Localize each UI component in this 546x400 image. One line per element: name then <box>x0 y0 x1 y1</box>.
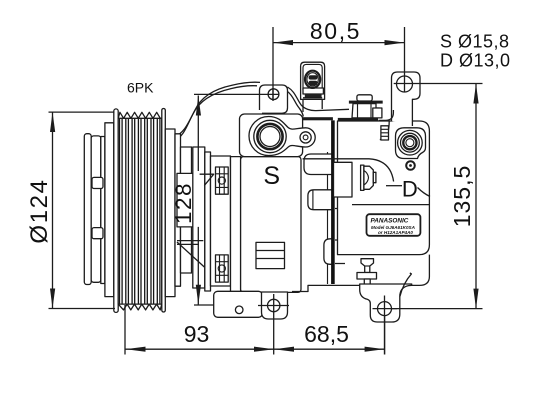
svg-text:D: D <box>402 176 418 201</box>
discharge boss blob <box>396 128 426 159</box>
svg-text:or H12A1AP4A0: or H12A1AP4A0 <box>378 230 413 235</box>
top-right mounting ear <box>392 72 421 126</box>
dimension 68,5 <box>274 315 385 355</box>
rear stud bolt bottom <box>357 259 377 286</box>
dimension 80,5 <box>273 18 405 99</box>
bottom-center mounting lug <box>262 292 288 319</box>
plate chamfer and coil details <box>200 174 214 185</box>
clutch coil housing step 2 <box>181 147 192 273</box>
discharge boss rings <box>398 130 423 155</box>
pulley front flange <box>114 109 118 313</box>
lug casting swoosh <box>400 273 412 297</box>
rear stud bolt mid <box>361 165 376 190</box>
dimension 128 <box>171 94 280 305</box>
mid stud boss plate <box>334 162 353 197</box>
plateau boundary lines <box>303 159 394 182</box>
front plate bolt upper <box>216 167 229 194</box>
pulley back plate <box>165 129 175 297</box>
svg-text:S Ø15,8: S Ø15,8 <box>440 31 510 51</box>
top-left hole crosshair vertical (ext of 80,5) <box>272 88 274 101</box>
front plate bolt lower <box>216 255 229 282</box>
small rear hole <box>406 161 415 170</box>
pulley groove section <box>118 118 162 304</box>
bottom-left support bar <box>214 291 263 317</box>
cylinder head column <box>231 157 241 293</box>
suction boss peanut outline <box>249 117 315 156</box>
svg-text:68,5: 68,5 <box>304 321 349 347</box>
small boss hole <box>300 132 311 143</box>
rear housing panel <box>338 121 430 255</box>
rear panel inner line <box>352 204 429 206</box>
cylinder block rear edge <box>327 152 329 284</box>
connector <box>301 62 325 112</box>
dimension 93 <box>125 305 274 355</box>
bottom-center mounting hole <box>268 299 280 311</box>
name plate small <box>256 242 285 268</box>
clutch front disc 2 <box>91 136 101 282</box>
svg-text:80,5: 80,5 <box>310 18 361 44</box>
svg-text:PANASONIC: PANASONIC <box>371 218 409 225</box>
damper tab upper <box>92 177 103 188</box>
rear bottom mounting hole <box>378 302 392 316</box>
pulley groove teeth top <box>118 112 162 118</box>
rear housing top edge <box>303 117 333 120</box>
svg-text:S: S <box>263 162 280 190</box>
top-left mounting ear <box>260 85 288 113</box>
wire harness from clutch coil to connector <box>174 82 349 140</box>
Panasonic label <box>367 214 421 236</box>
front/rear split line <box>331 120 335 284</box>
svg-text:135,5: 135,5 <box>449 165 475 228</box>
top-right mounting hole <box>397 76 413 92</box>
pulley groove teeth bottom <box>118 304 162 310</box>
D port label <box>386 185 402 187</box>
clutch hub step slab <box>105 123 114 297</box>
rear bottom mounting lug <box>360 284 412 322</box>
svg-text:128: 128 <box>171 182 196 224</box>
clutch coil housing step 1 <box>175 134 181 286</box>
dimension 135,5 <box>391 84 483 309</box>
compressor front plate A <box>193 147 205 288</box>
pulley rib edge lines <box>118 118 162 304</box>
mid bosses between body and rear <box>304 154 333 175</box>
svg-text:6PK: 6PK <box>127 80 154 96</box>
main body block <box>241 157 301 293</box>
pulley ribs <box>120 118 160 304</box>
suction port rings <box>254 120 286 152</box>
boss continuation lines on rear panel <box>335 192 345 264</box>
ear strap fillet <box>379 110 394 120</box>
top-left mounting hole <box>268 89 279 100</box>
dimension Ø124 <box>26 112 115 309</box>
svg-text:93: 93 <box>184 321 210 347</box>
damper tab lower <box>92 228 103 239</box>
suction boss backing plate <box>240 114 303 157</box>
clutch front disc 1 <box>84 134 91 285</box>
rear top fitting bracket <box>349 95 383 118</box>
front bolt column <box>211 156 231 286</box>
svg-text:Ø124: Ø124 <box>26 178 53 243</box>
clutch disc 3 <box>101 137 105 284</box>
compressor front plate B <box>205 152 211 291</box>
rear housing lower body <box>292 255 429 292</box>
pulley rear flange <box>162 109 166 313</box>
svg-text:D Ø13,0: D Ø13,0 <box>440 51 511 71</box>
clutch coil block <box>177 173 200 227</box>
ribbed fitting below ear <box>381 126 389 140</box>
